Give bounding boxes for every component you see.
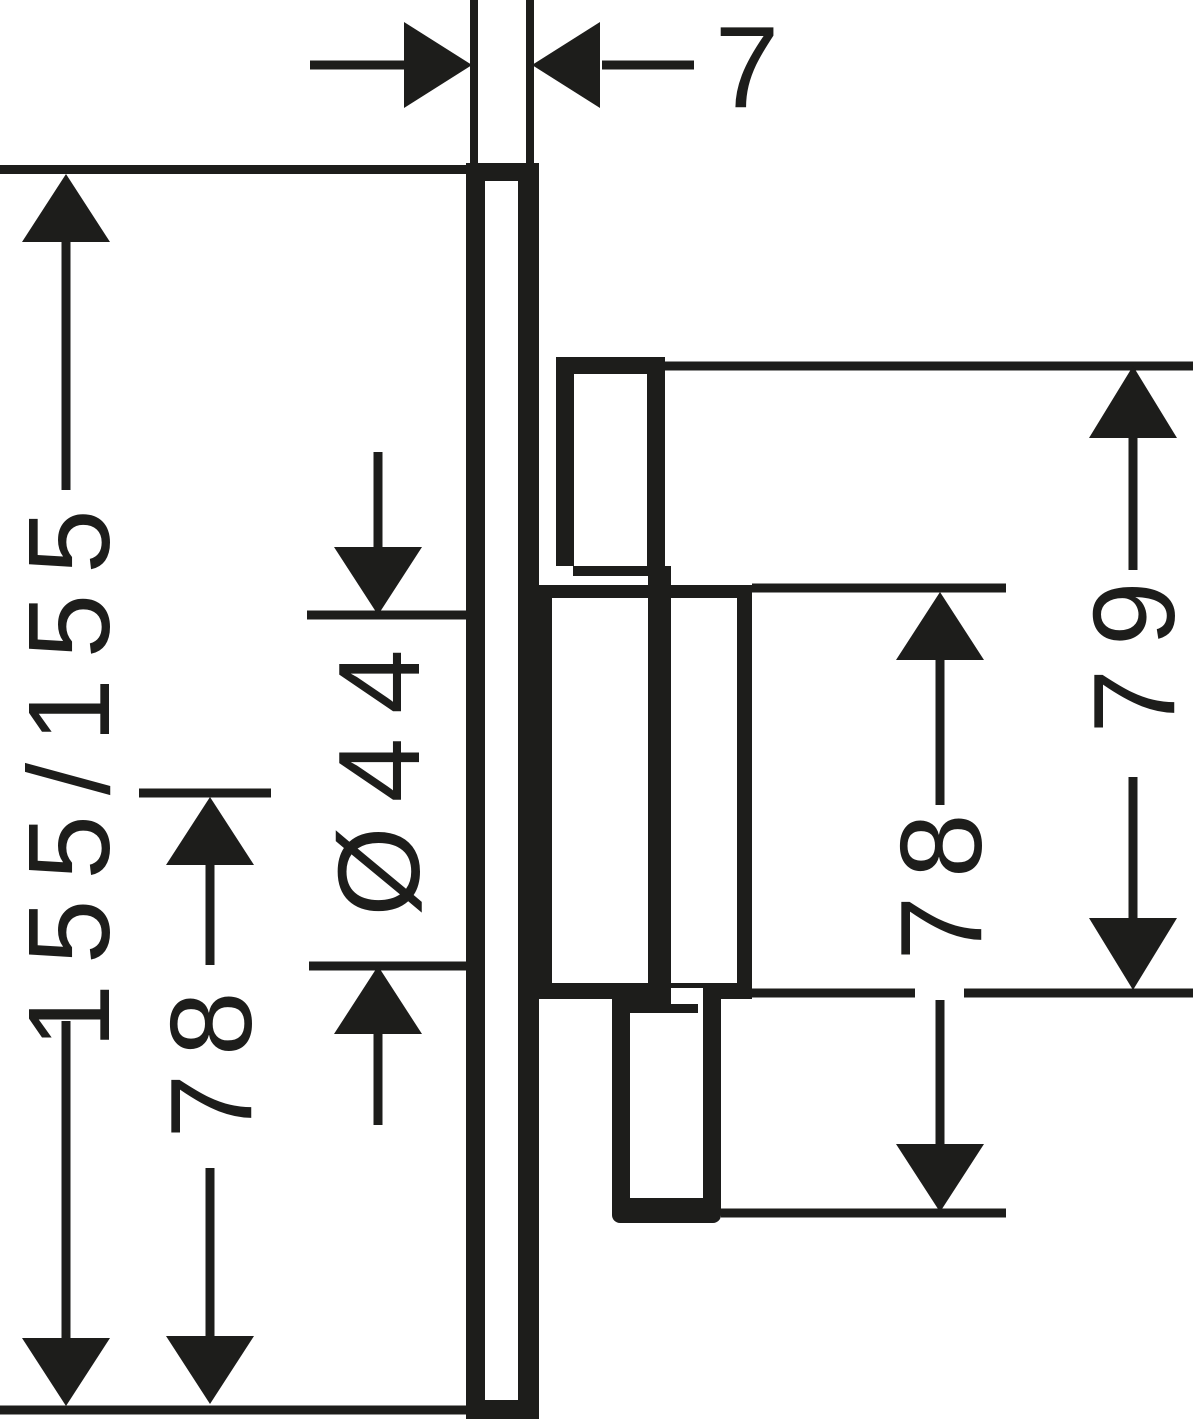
dimension 155/155 top arrow [22,174,110,242]
dimension 78-right bottom arrow [936,1000,945,1144]
sleeve bottom edge [573,566,665,576]
sleeve right edge continuation [648,566,671,999]
extension line top-right of plate [526,0,534,172]
svg-text:79: 79 [1069,558,1199,733]
wall plate (7 mm escutcheon, side view) [466,163,539,1419]
svg-text:78: 78 [146,973,276,1138]
extension line bottom (155/155 and 78 base) [0,1406,539,1415]
dimension d44 upper arrow (down) [374,452,383,547]
extension line 78-right top [752,584,1006,593]
extension line 78-left top [139,789,271,798]
extension line 155/155 top [0,165,466,174]
svg-text:155/155: 155/155 [4,489,134,1048]
extension line diameter 44 bottom [309,962,466,971]
lower spigot bottom cap [612,1198,721,1223]
extension line 79 bottom (right segment) [964,989,1193,998]
dimension 79 bottom arrow [1129,777,1138,918]
sleeve (upper spigot) [556,357,665,576]
extension line 79 top [665,362,1193,371]
white notch at valve body bottom [671,988,704,1004]
dimension d44 lower arrow (up) [334,966,422,1034]
dimension 7 right arrow [602,61,694,70]
extension line 79 bottom (left segment) [752,989,915,998]
svg-text:78: 78 [876,795,1006,960]
dimension 79 top arrow [1089,366,1177,438]
extension line 78-right bottom [721,1209,1006,1218]
dimension 78-right top arrow [896,592,984,660]
svg-text:7: 7 [715,2,780,132]
dimension 7 left arrow [310,61,406,70]
lower spigot right edge [703,983,721,1210]
dimension 78-left top arrow [166,797,254,865]
lower spigot left edge [612,999,630,1210]
extension line diameter 44 top [307,611,466,620]
valve body (middle block) [533,585,752,999]
extension line top-left of plate [470,0,478,168]
dimension 78-left bottom arrow [206,1168,215,1340]
lower spigot top edge [612,999,698,1013]
dimension 155/155 bottom arrow [62,1021,71,1340]
svg-text:Ø44: Ø44 [314,625,444,916]
sleeve right edge continuation inside valve body [648,598,671,999]
